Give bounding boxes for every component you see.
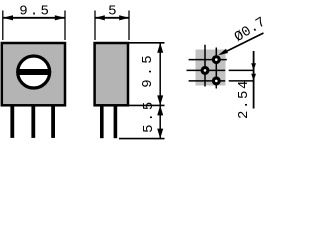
pin grid hline 3 bbox=[189, 80, 226, 82]
pin 2 bbox=[202, 68, 208, 74]
svg-text:5: 5 bbox=[108, 3, 116, 19]
pin grid hline 2 bbox=[187, 69, 226, 71]
dim 2.54 line bbox=[253, 51, 255, 109]
screw slot bar bbox=[17, 69, 51, 75]
dim 9.5v arrow bottom bbox=[157, 95, 163, 105]
dim 5 arrow left bbox=[95, 15, 105, 20]
side view body bbox=[95, 43, 128, 105]
svg-text:2.54: 2.54 bbox=[236, 79, 252, 119]
height dim extension line mid bbox=[129, 104, 165, 106]
front view body bbox=[2, 43, 65, 105]
side leg front bbox=[100, 106, 104, 139]
dim 5.5 arrow top bbox=[157, 105, 163, 115]
pin layout pad bbox=[196, 50, 226, 86]
pin grid vline 2 bbox=[215, 48, 217, 89]
pin grid vline 1 bbox=[204, 45, 206, 87]
pin 1 bbox=[213, 57, 219, 63]
dim 9.5v arrow top bbox=[157, 43, 163, 53]
dim 2.54 arrow top bbox=[251, 63, 256, 70]
leader line bbox=[221, 33, 264, 54]
side leg rear bbox=[114, 106, 118, 139]
pin 3 bbox=[213, 78, 219, 84]
leg 3 bbox=[51, 106, 55, 138]
svg-text:5.5: 5.5 bbox=[141, 99, 157, 133]
pin grid hline 2 dash bbox=[229, 69, 254, 71]
dim 9.5 extension line right bbox=[64, 11, 66, 41]
height dim extension line bottom bbox=[119, 138, 165, 140]
dim 5 line bbox=[95, 17, 129, 19]
dim 9.5 line bbox=[3, 17, 65, 19]
svg-text:9.5: 9.5 bbox=[19, 4, 51, 20]
dim 2.54 arrow bottom bbox=[251, 74, 256, 81]
dim 5 extension line left bbox=[94, 11, 96, 41]
leader arrow bbox=[218, 49, 228, 56]
dim 5.5 arrow bottom bbox=[157, 129, 163, 139]
dim 9.5 extension line left bbox=[2, 11, 4, 41]
pin grid hline 3 dash bbox=[229, 80, 254, 82]
leg 2 bbox=[31, 106, 35, 138]
dim 5 extension line right bbox=[128, 11, 130, 41]
height dim extension line top bbox=[129, 42, 165, 44]
dim 5 arrow right bbox=[119, 15, 129, 20]
dim 9.5 arrow left bbox=[3, 15, 13, 20]
height dim line bbox=[159, 43, 161, 139]
dim 9.5 arrow right bbox=[55, 15, 65, 20]
screw slot circle bbox=[18, 56, 50, 88]
leg 1 bbox=[10, 106, 14, 138]
pin grid hline 1 bbox=[189, 59, 227, 61]
svg-text:9.5: 9.5 bbox=[140, 52, 156, 88]
